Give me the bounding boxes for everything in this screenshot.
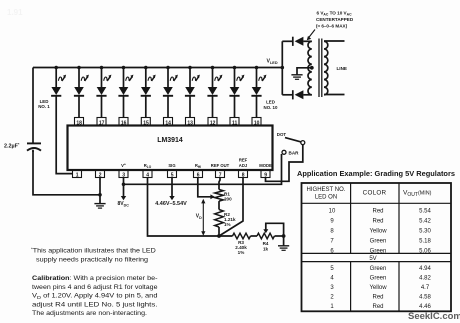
- node: pin 3 junction: [122, 183, 126, 187]
- svg-text:15: 15: [143, 120, 149, 126]
- LED 1: [51, 66, 66, 96]
- svg-text:Red: Red: [372, 218, 383, 224]
- wire LED9: [234, 97, 236, 119]
- wire LED3: [101, 97, 103, 119]
- pin 1: [73, 170, 82, 178]
- pin 8: [239, 170, 248, 178]
- svg-text:Red: Red: [372, 304, 383, 310]
- wire: pin 9 to DOT: [266, 145, 303, 182]
- svg-text:supply needs practically no fi: supply needs practically no filtering: [36, 256, 148, 263]
- wire: pin 4 to bottom rail: [148, 178, 233, 237]
- IC U1 LM3914: [68, 126, 273, 171]
- svg-text:4.82: 4.82: [419, 276, 431, 282]
- pin 11: [230, 118, 239, 127]
- LED 3: [96, 66, 111, 96]
- transformer T1 secondary winding: [308, 41, 312, 95]
- pin 12: [208, 118, 217, 127]
- wire LED5: [145, 97, 147, 119]
- svg-text:adjust R4 until LED No. 5 just: adjust R4 until LED No. 5 just lights.: [32, 301, 158, 308]
- svg-text:1%: 1%: [224, 222, 231, 227]
- LED 7: [185, 66, 200, 96]
- svg-text:13: 13: [187, 120, 193, 126]
- pin 14: [164, 118, 173, 127]
- svg-text:Green: Green: [370, 238, 387, 244]
- svg-text:Application Example: Grading 5: Application Example: Grading 5V Regulato…: [297, 171, 455, 178]
- svg-text:18: 18: [76, 120, 82, 126]
- LED 6: [163, 66, 178, 96]
- wire: R2 to junction: [218, 227, 220, 236]
- transformer T1 primary winding: [324, 41, 328, 95]
- LED 2: [74, 66, 89, 96]
- switch contact DOT: [301, 141, 305, 145]
- svg-text:16: 16: [121, 120, 127, 126]
- wire LED4: [123, 97, 125, 119]
- svg-text:DOT: DOT: [277, 132, 287, 137]
- svg-text:4.46V–5.54V: 4.46V–5.54V: [155, 201, 187, 207]
- svg-text:Green: Green: [370, 248, 387, 254]
- svg-text:12: 12: [210, 120, 216, 126]
- svg-text:5.30: 5.30: [419, 228, 431, 234]
- svg-text:SeekIC.com: SeekIC.com: [408, 311, 460, 322]
- wire: R4 to ground node: [275, 235, 284, 237]
- svg-text:LINE: LINE: [337, 66, 347, 71]
- svg-text:tween pins 4 and 6 adjust R1 f: tween pins 4 and 6 adjust R1 for voltage: [32, 284, 158, 291]
- wire: LED1 to pin 1: [56, 97, 72, 174]
- wire: VLED node vertical: [281, 41, 283, 95]
- LED 5: [141, 66, 156, 96]
- resistor R2 1.21k: [215, 210, 236, 227]
- LED 4: [118, 66, 133, 96]
- wire: pin 5 signal input: [171, 178, 173, 197]
- svg-text:200: 200: [224, 196, 232, 201]
- wire: bus to capacitor: [32, 68, 34, 153]
- wire LED2: [78, 97, 80, 119]
- svg-text:HIGHEST NO.: HIGHEST NO.: [307, 187, 346, 193]
- svg-text:SIG: SIG: [168, 163, 175, 168]
- supply arrow 8VDC: [121, 196, 126, 200]
- wire: R3 to R4: [251, 235, 258, 237]
- svg-text:(≈ 6–0–6 MAX): (≈ 6–0–6 MAX): [316, 24, 348, 29]
- svg-text:10: 10: [329, 208, 336, 214]
- LED 9: [229, 66, 244, 96]
- pin 17: [97, 118, 106, 127]
- svg-text:R4: R4: [263, 241, 269, 246]
- wire: to ground: [283, 236, 285, 246]
- svg-text:14: 14: [165, 120, 171, 126]
- wire LED6: [167, 97, 169, 119]
- svg-text:4.58: 4.58: [419, 294, 431, 300]
- svg-text:10: 10: [254, 120, 260, 126]
- svg-text:NO. 10: NO. 10: [264, 105, 278, 110]
- wire LED8: [212, 97, 214, 119]
- svg-text:Green: Green: [370, 276, 387, 282]
- svg-text:Yellow: Yellow: [369, 285, 387, 291]
- switch contact BAR: [282, 150, 286, 154]
- pin 13: [186, 118, 195, 127]
- wire: primary top terminal: [324, 40, 345, 42]
- svg-text:1k: 1k: [263, 247, 269, 252]
- wire: pin 2 to ground: [99, 178, 101, 204]
- svg-text:5.42: 5.42: [419, 218, 431, 224]
- svg-text:4.46: 4.46: [419, 304, 431, 310]
- svg-text:MODE: MODE: [259, 163, 272, 168]
- diode D1 top: [282, 37, 312, 46]
- svg-text:LM3914: LM3914: [157, 137, 183, 144]
- svg-text:1.91: 1.91: [7, 8, 23, 17]
- node: ground junction: [98, 193, 102, 197]
- svg-text:BAR: BAR: [289, 151, 300, 156]
- svg-text:17: 17: [99, 120, 105, 126]
- pin 7: [216, 170, 225, 178]
- svg-text:CENTERTAPPED: CENTERTAPPED: [316, 17, 354, 22]
- pin 6: [194, 170, 203, 178]
- svg-text:*This application illustrates: *This application illustrates that the L…: [31, 247, 156, 255]
- input arrow 4.46V-5.54V: [169, 196, 174, 200]
- faint scan smudge: [7, 8, 23, 17]
- svg-text:5.54: 5.54: [419, 208, 431, 214]
- svg-text:2.2µF*: 2.2µF*: [4, 142, 20, 150]
- node: R4 ground junction: [282, 234, 286, 238]
- pin 15: [141, 118, 150, 127]
- wire LED7: [189, 97, 191, 119]
- svg-text:1%: 1%: [238, 250, 245, 255]
- pin 18: [75, 118, 84, 127]
- svg-text:Calibration: With a precision: Calibration: With a precision meter be-: [32, 275, 158, 282]
- svg-text:5.06: 5.06: [419, 248, 431, 254]
- svg-text:REF OUT: REF OUT: [211, 163, 230, 168]
- pin 16: [119, 118, 128, 127]
- svg-text:COLOR: COLOR: [363, 190, 387, 197]
- svg-text:1: 1: [76, 172, 79, 178]
- pin 2: [96, 170, 105, 178]
- svg-text:The adjustments are non-intera: The adjustments are non-interacting.: [32, 310, 147, 317]
- note: transformer rating: [307, 11, 354, 41]
- wire: capacitor to ground rail: [33, 151, 100, 195]
- svg-text:11: 11: [232, 120, 238, 126]
- wire LED10: [256, 97, 258, 119]
- switch blade: [285, 138, 301, 142]
- svg-text:5V: 5V: [369, 256, 376, 262]
- node: R2/R3 junction: [217, 234, 221, 238]
- ground (pin 2): [94, 204, 105, 209]
- wiper arrow into R1: [210, 194, 214, 199]
- transformer core: [318, 39, 320, 98]
- potentiometer R4 1k: [257, 233, 274, 251]
- svg-text:REF: REF: [239, 158, 248, 163]
- capacitor 2.2uF: [4, 142, 41, 151]
- wire: VLED bus: [33, 67, 282, 69]
- wiper of R4: [263, 223, 283, 236]
- pin 10: [252, 118, 261, 127]
- node VLED: [267, 59, 285, 70]
- pin 4: [143, 170, 152, 178]
- svg-text:5.18: 5.18: [419, 238, 431, 244]
- svg-text:Red: Red: [372, 208, 383, 214]
- pin 3: [119, 170, 128, 178]
- resistor R3 2.40k: [233, 233, 251, 255]
- dimension VD: [196, 199, 206, 236]
- pin 5: [168, 170, 177, 178]
- resistor R1 200: [215, 190, 232, 202]
- LED 10: [251, 66, 266, 96]
- LED 8: [207, 66, 222, 96]
- diode D2 bottom: [282, 90, 312, 99]
- svg-text:4.94: 4.94: [419, 266, 431, 272]
- wire: center tap to ground: [297, 68, 312, 75]
- svg-text:LED ON: LED ON: [315, 194, 337, 200]
- wire: pin 3 supply: [123, 178, 125, 197]
- svg-text:VD of 1.20V. Apply 4.94V to pi: VD of 1.20V. Apply 4.94V to pin 5, and: [32, 293, 158, 300]
- svg-text:Red: Red: [372, 294, 383, 300]
- wire: pin 7 to R1: [219, 178, 220, 190]
- wire: pin 6 to R1 wiper: [198, 178, 212, 197]
- svg-text:NO. 1: NO. 1: [38, 104, 50, 109]
- svg-text:Yellow: Yellow: [369, 228, 387, 234]
- wire: V+ rail to BAR: [124, 154, 282, 184]
- wire: R1 to R2: [218, 201, 220, 209]
- table: application example: [297, 171, 455, 311]
- svg-text:Green: Green: [370, 266, 387, 272]
- wire: pin 8 to junction: [219, 178, 243, 237]
- wire: primary bottom terminal: [324, 94, 345, 96]
- node: center tap: [310, 66, 314, 70]
- svg-text:LED: LED: [266, 100, 275, 105]
- ground (R4): [278, 246, 289, 251]
- pin 9: [261, 170, 270, 178]
- svg-text:4.7: 4.7: [421, 285, 430, 291]
- svg-text:ADJ: ADJ: [239, 163, 248, 168]
- ground (center tap): [291, 75, 302, 80]
